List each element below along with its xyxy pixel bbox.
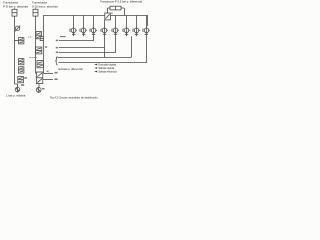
vent E1 circle bbox=[15, 87, 20, 93]
valve V4 bbox=[18, 77, 27, 83]
svg-text:Fig 4.2 Circuito neumático de: Fig 4.2 Circuito neumático de distribuci… bbox=[50, 96, 98, 100]
gauge G2 bbox=[80, 16, 87, 36]
output wire L3 bbox=[56, 33, 116, 54]
valve V8 bbox=[36, 72, 42, 84]
svg-text:a): a) bbox=[47, 69, 49, 73]
transducer T3 differential box bbox=[108, 6, 125, 15]
vent E2 circle bbox=[36, 87, 41, 93]
column 1 wire bbox=[14, 16, 16, 84]
output wire L1 bbox=[56, 33, 94, 42]
gauge G7 bbox=[133, 16, 140, 36]
gauge G8 bbox=[143, 16, 150, 36]
transducer T1 box bbox=[12, 8, 17, 16]
column 2 wire bbox=[35, 16, 37, 73]
valve V3 bbox=[19, 67, 24, 73]
svg-text:1 bar p. relativa: 1 bar p. relativa bbox=[6, 93, 26, 97]
svg-text:Salida rápida: Salida rápida bbox=[98, 66, 114, 70]
gauge G5 bbox=[112, 16, 119, 36]
output wire L5 bbox=[59, 33, 147, 63]
pilot dashed wire 2 bbox=[30, 57, 37, 59]
svg-text:M: M bbox=[111, 13, 113, 15]
svg-text:P-D bar p. absoluta: P-D bar p. absoluta bbox=[3, 5, 28, 9]
brace differential pair bbox=[55, 57, 57, 65]
pilot dashed wire 1 bbox=[28, 36, 32, 38]
stub wire b bbox=[44, 72, 58, 74]
regulator R1 circle bbox=[15, 26, 20, 32]
gauge G4 bbox=[101, 20, 108, 35]
gauge bottom stubs bbox=[73, 33, 75, 37]
valve V5 bbox=[36, 32, 42, 39]
valve V1 bbox=[15, 38, 24, 44]
svg-text:Entrada rápida: Entrada rápida bbox=[98, 63, 116, 67]
gauge G1 bbox=[70, 16, 77, 36]
legend arrow 1 bbox=[94, 63, 116, 67]
valve V6 bbox=[36, 47, 42, 54]
stub wire c bbox=[43, 78, 58, 80]
top bus wire bbox=[44, 16, 148, 74]
gauge G6 bbox=[123, 16, 130, 36]
svg-text:Transductor P-2,5 bar p. difer: Transductor P-2,5 bar p. diferencial bbox=[100, 0, 142, 4]
valve M on bus bbox=[105, 13, 113, 20]
svg-text:Entrada p. diferencial: Entrada p. diferencial bbox=[59, 67, 84, 71]
wire T3 to valve M bbox=[107, 8, 109, 13]
output wire L2 bbox=[56, 33, 105, 58]
valve V2 bbox=[19, 59, 24, 65]
transducer T2 box bbox=[33, 8, 38, 16]
svg-text:Salida eléctrica: Salida eléctrica bbox=[98, 70, 117, 74]
legend arrow 3 bbox=[94, 70, 117, 74]
output wire L4 bbox=[58, 36, 132, 57]
gauge G3 bbox=[90, 16, 97, 36]
svg-text:0-10 bar p. absoluta: 0-10 bar p. absoluta bbox=[32, 5, 58, 9]
legend arrow 2 bbox=[94, 66, 114, 70]
valve V9 on bus drop bbox=[40, 37, 43, 41]
valve V7 bbox=[37, 61, 43, 68]
